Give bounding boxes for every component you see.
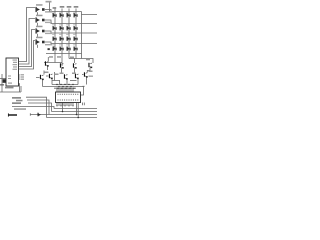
wire Q1b collector (54, 72, 56, 81)
diode D41 (74, 13, 78, 17)
diode D13 (53, 37, 57, 41)
IC1 label (5, 87, 14, 89)
IC1 right pin bus stubs (19, 75, 21, 84)
diode D21 (60, 13, 64, 17)
O3 part no (45, 33, 52, 34)
wire column4 drop (75, 54, 77, 59)
O2 part no (45, 22, 52, 23)
wire collector link 2 (70, 80, 77, 82)
wire bus line 3 (19, 30, 35, 67)
column header 3 (67, 6, 72, 8)
IC2 bottom pin comb (57, 103, 73, 107)
wire label line 2 (27, 100, 49, 115)
wire IC2 pin drop 2 (76, 103, 78, 115)
supply label (46, 1, 52, 3)
wire IC1 bottom line (0, 86, 21, 92)
wire grid column 4 (75, 9, 77, 54)
diode D22 (60, 26, 64, 30)
diode D12 (53, 26, 57, 30)
wire bottom bus 2 (52, 111, 98, 113)
IC2 top pin comb (57, 88, 73, 93)
net label D (14, 108, 26, 110)
wire bottom bus 3 (49, 114, 97, 116)
wire O4 cathode stub (37, 45, 39, 48)
wire column2 drop (61, 54, 63, 67)
O1 part no (45, 11, 52, 12)
wire IC2 right feed (81, 86, 85, 95)
diode D23 (60, 37, 64, 41)
wire Q4b emitter (86, 77, 88, 85)
optocoupler O1 (36, 7, 45, 12)
IC1 internal text (8, 60, 17, 84)
wire Q0b base (36, 71, 44, 78)
optocoupler O4 (36, 39, 45, 44)
wire row line 5 (46, 53, 82, 55)
wire mid bus 1 (52, 84, 78, 86)
wire grid column 1 (54, 9, 56, 54)
O4 label (36, 37, 43, 39)
column header 4 (74, 6, 79, 8)
wire Q1a emitter (47, 66, 49, 70)
wire supply feed (49, 2, 51, 12)
diode D43 (74, 37, 78, 41)
wire R1 link (30, 113, 49, 115)
wire mid bus 3 (54, 87, 76, 89)
wire Q0b emitter (42, 80, 44, 87)
wire row line 4 (45, 42, 97, 44)
wire column3 drop (69, 54, 75, 64)
Q2b label (60, 73, 64, 75)
wire IC2 right bottom pins (83, 103, 85, 106)
transistor Q3a (73, 63, 77, 69)
wire Q4a emitter (87, 68, 90, 73)
diode D24 (60, 47, 64, 51)
Q3a label (70, 57, 74, 59)
wire collector link 1 (52, 81, 60, 85)
crystal X1 (3, 79, 6, 83)
O4 part no (45, 44, 52, 45)
transistor Q2b (64, 74, 68, 80)
wire bus line 4 (19, 41, 35, 70)
wire row line 3 (45, 31, 97, 33)
O2 label (36, 15, 43, 17)
wire right column vertical (81, 15, 83, 59)
cell micro labels (52, 12, 75, 45)
wire mid bus 2 (43, 86, 84, 88)
Q2a label (57, 56, 61, 58)
net label B (16, 100, 23, 102)
net label A (12, 97, 21, 99)
wire bus line 1 (19, 8, 35, 62)
diode D15 extra (48, 48, 50, 50)
resistor R1 (38, 113, 41, 117)
wire bottom bus 4 (47, 117, 98, 119)
O1 label (36, 4, 43, 6)
wire Q2a emitter (61, 68, 63, 73)
Q4b part no (89, 76, 94, 77)
Q1a label (49, 56, 53, 58)
ground mark (0, 84, 4, 85)
wire IC1 pin drop (19, 84, 21, 93)
diode D33 (67, 37, 71, 41)
wire driver line A1 (44, 62, 62, 64)
wire grid column 2 (61, 9, 63, 54)
wire O2 cathode stub (37, 23, 39, 26)
diode D44 (74, 47, 78, 51)
junction dots (49, 11, 79, 119)
diode D11 (53, 13, 57, 17)
column header 1 (53, 7, 57, 9)
wire row line 2 (45, 20, 97, 24)
wire Q1b base (46, 75, 49, 77)
wire Q3b emitter (77, 79, 79, 85)
wire label line 1 (26, 97, 47, 117)
wire driver line A2 (69, 59, 93, 64)
transistor Q1b (49, 74, 53, 80)
IC1 U1 body (6, 58, 19, 86)
Q4a label (86, 59, 90, 61)
wire Q4b base (82, 74, 84, 76)
wire IC1 left vertical (1, 74, 3, 92)
diode D34 (67, 47, 71, 51)
wire Q3a emitter (74, 68, 76, 73)
IC2 U2 body (56, 92, 81, 103)
transistor Q1a (45, 61, 49, 67)
wire Q2b emitter (66, 79, 68, 85)
wire IC2 pin drop 3 (77, 103, 79, 118)
diode D31 (67, 13, 71, 17)
wire column1 drop (54, 54, 56, 63)
Q4b label (89, 71, 93, 73)
wire label line 4 (12, 107, 54, 109)
Q1b label (55, 74, 59, 76)
O3 label (36, 26, 43, 28)
terminal T1 (8, 114, 17, 116)
terminal tick (7, 113, 9, 116)
wire right edge stub (82, 12, 98, 15)
IC1 pin labels (21, 74, 25, 80)
wire IC2 pin drop 1 (62, 103, 64, 112)
Q3b label (72, 73, 76, 75)
column header 2 (60, 6, 65, 8)
IC2 pin numbers bottom row (58, 99, 80, 101)
Q0b label (45, 72, 49, 74)
wire bus line 2 (19, 19, 35, 65)
diode D32 (67, 26, 71, 30)
net label C (12, 102, 21, 104)
transistor Q3b (75, 74, 79, 80)
IC2 pin numbers top row (58, 93, 80, 95)
transistor Q4b (84, 72, 88, 78)
wire O1 cathode stub (37, 12, 39, 15)
wire Q1b emitter (51, 79, 53, 85)
diode D42 (74, 26, 78, 30)
wire bottom bus 1 (54, 108, 97, 110)
transistor Q0b (40, 75, 44, 81)
transistor Q4a (88, 63, 92, 69)
wire label line 3 (28, 103, 52, 112)
optocoupler O2 (36, 17, 45, 22)
diode D14 (53, 47, 57, 51)
wire IC1 left input (0, 78, 6, 80)
wire grid column 3 (68, 9, 70, 54)
wire row rail 1 (45, 10, 82, 12)
wire O3 cathode stub (37, 34, 39, 37)
wire Q1a collector (47, 57, 49, 61)
transistor Q2a (60, 63, 64, 69)
optocoupler O3 (36, 28, 45, 33)
